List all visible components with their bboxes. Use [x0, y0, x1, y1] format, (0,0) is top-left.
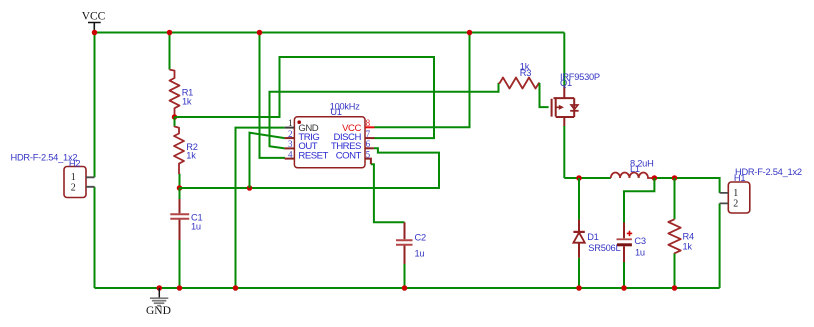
node VCC flag junction — [92, 30, 98, 36]
wire TRIG net horizontal to THRES (pin 6) — [180, 148, 440, 188]
capacitor C1 — [170, 188, 202, 288]
svg-text:L1: L1 — [630, 164, 640, 174]
U1 pin 6 THRES — [331, 139, 374, 152]
svg-text:1: 1 — [733, 188, 738, 199]
U1 pin 4 RESET — [285, 150, 329, 162]
wire divider junction to DISCH (pin 7) — [175, 57, 435, 138]
svg-text:1u: 1u — [191, 222, 201, 232]
transistor Q1 IRF9530P — [552, 72, 600, 126]
connector H1 — [720, 167, 802, 213]
svg-text:7: 7 — [366, 129, 371, 139]
svg-text:1k: 1k — [683, 242, 693, 252]
U1 pin 8 VCC — [342, 118, 374, 134]
svg-text:CONT: CONT — [336, 150, 362, 161]
U1 pin 5 CONT — [336, 150, 371, 165]
wire VCC rail to R1 — [169, 33, 171, 70]
wire switch node row — [564, 178, 719, 193]
svg-text:D1: D1 — [587, 232, 598, 242]
svg-text:C2: C2 — [415, 233, 426, 243]
svg-text:4: 4 — [288, 150, 293, 160]
resistor R3 — [499, 61, 540, 88]
wire VCC rail to RESET (pin 4) — [260, 33, 286, 158]
svg-text:RESET: RESET — [298, 150, 328, 161]
svg-text:2: 2 — [71, 182, 76, 193]
svg-text:6: 6 — [366, 139, 371, 149]
svg-text:GND: GND — [146, 305, 171, 317]
resistor R4 — [668, 178, 694, 288]
svg-text:1: 1 — [288, 118, 293, 128]
U1 pin 3 OUT — [285, 139, 318, 152]
svg-text:H1: H1 — [734, 173, 745, 183]
U1 pin 1 GND — [285, 118, 319, 134]
wire top VCC rail — [95, 32, 565, 34]
resistor R1 — [170, 70, 194, 117]
wire bottom ground rail — [95, 287, 720, 289]
wire VCC rail to Q1 source — [563, 33, 565, 87]
node pin1 ground junction — [233, 285, 239, 291]
node RESET vcc junction — [257, 30, 263, 36]
node C1 ground junction — [177, 285, 183, 291]
capacitor C3 polarized — [617, 223, 646, 289]
svg-text:HDR-F-2.54_1x2: HDR-F-2.54_1x2 — [11, 152, 78, 162]
node R1 vcc junction — [167, 30, 173, 36]
svg-text:5: 5 — [366, 150, 371, 160]
node D1 switch junction — [576, 175, 582, 181]
capacitor C2 — [396, 222, 426, 288]
inductor L1 — [611, 158, 655, 178]
wire Q1 drain down to switch node — [563, 126, 565, 178]
resistor R2 — [174, 117, 198, 188]
node R4 output junction — [672, 175, 678, 181]
svg-text:1k: 1k — [182, 97, 192, 107]
svg-text:1k: 1k — [186, 151, 196, 161]
svg-text:3: 3 — [288, 139, 293, 149]
svg-text:Q1: Q1 — [560, 78, 572, 88]
wire TRIG (pin 2) to TRIG net — [250, 133, 285, 188]
svg-text:1u: 1u — [635, 248, 645, 258]
svg-text:H2: H2 — [69, 158, 80, 168]
node GND tap junction — [157, 285, 163, 291]
svg-text:U1: U1 — [330, 107, 341, 117]
svg-text:R4: R4 — [683, 232, 694, 242]
svg-text:VCC: VCC — [82, 10, 106, 22]
U1 pin 7 DISCH — [334, 129, 375, 143]
wire CONT (pin 5) to C2 — [371, 164, 405, 222]
node D1 ground junction — [576, 285, 582, 291]
node pin8 vcc junction — [467, 30, 473, 36]
wire H2 pin1 to VCC rail — [94, 33, 96, 178]
wire VCC (pin 8) to VCC rail — [375, 33, 470, 128]
diode D1 — [573, 178, 620, 288]
svg-text:C3: C3 — [634, 236, 645, 246]
svg-text:1u: 1u — [415, 249, 425, 259]
wire H1 pin2 to ground rail — [719, 203, 721, 288]
wire R3 to Q1 gate — [540, 83, 549, 107]
node TRIG vertical junction — [247, 185, 253, 191]
ground symbol — [146, 288, 171, 317]
U1 pin 2 TRIG — [285, 129, 320, 143]
wire output to C3 jog — [624, 178, 654, 223]
svg-text:2: 2 — [733, 199, 738, 210]
svg-text:8: 8 — [366, 118, 371, 128]
node R4 ground junction — [672, 285, 678, 291]
wire OUT (pin 3) to R3 — [270, 83, 499, 148]
node R2/C1/TRIG junction — [177, 185, 183, 191]
node C3 ground junction — [621, 285, 627, 291]
wire H2 pin2 to ground rail — [94, 187, 96, 288]
IC U1 555 timer body — [294, 101, 365, 167]
svg-text:SR506L: SR506L — [588, 243, 620, 253]
node L1/C3 output junction — [652, 175, 658, 181]
wire GND (pin 1) to ground rail — [236, 128, 285, 288]
power flag VCC — [82, 10, 106, 32]
node R1/R2/DISCH junction — [172, 114, 178, 120]
svg-text:2: 2 — [288, 129, 293, 139]
node C2 ground junction — [402, 285, 408, 291]
connector H2 — [11, 152, 95, 197]
svg-text:R3: R3 — [520, 68, 531, 78]
